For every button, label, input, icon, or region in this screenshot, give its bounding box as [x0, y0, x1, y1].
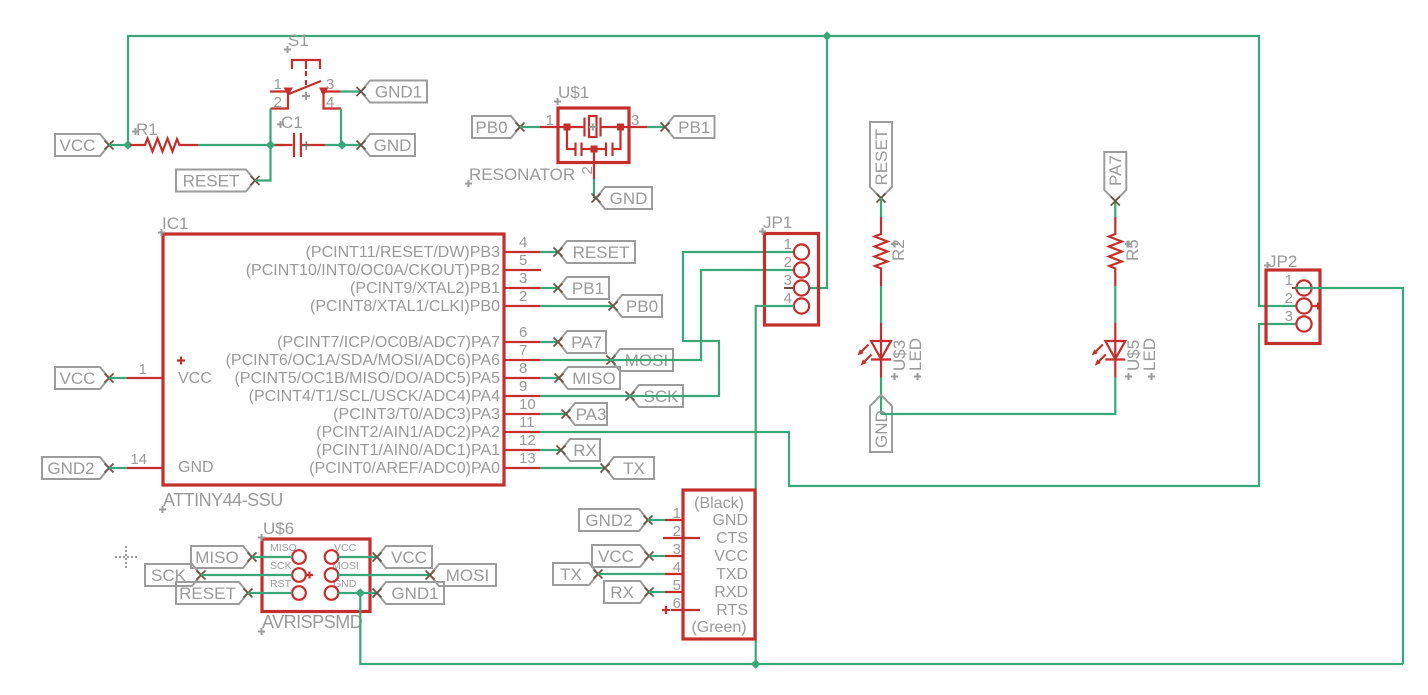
svg-text:1: 1 [1285, 272, 1293, 289]
svg-text:GND1: GND1 [391, 584, 438, 603]
svg-text:CTS: CTS [716, 530, 748, 547]
svg-text:13: 13 [519, 450, 536, 467]
svg-text:RESET: RESET [179, 584, 236, 603]
pin 1 of JP2 [1285, 272, 1312, 296]
pin 6 RTS stub of FTDI (unconnected) [662, 595, 700, 614]
junction dot on top rail at x=827 [822, 31, 832, 41]
node TX flag (IC1) [601, 457, 655, 479]
svg-text:(Green): (Green) [691, 619, 746, 636]
node RESET vertical flag (above R2) [870, 122, 892, 203]
svg-text:(PCINT2/AIN1/ADC2)PA2: (PCINT2/AIN1/ADC2)PA2 [316, 424, 500, 441]
node RESET flag (IC1 PB3) [554, 241, 636, 263]
node MOSI flag (right of U$6) [426, 564, 497, 586]
svg-text:RESET: RESET [573, 243, 630, 262]
svg-text:3: 3 [673, 541, 681, 558]
svg-text:R1: R1 [136, 120, 158, 139]
pin 10 PA3 stub [333, 396, 540, 423]
node GND2 flag (FTDI) [579, 509, 653, 531]
node PB0 flag (IC1) [609, 295, 663, 317]
svg-text:RX: RX [610, 583, 634, 602]
junction dot VCC/R1 [123, 140, 133, 150]
svg-text:PB0: PB0 [475, 118, 507, 137]
svg-text:1: 1 [274, 76, 282, 93]
svg-text:U$1: U$1 [558, 83, 589, 102]
svg-text:PA3: PA3 [576, 405, 607, 424]
wire S1 pin2 down to C1 node [269, 109, 271, 146]
resistor R1 [130, 120, 198, 152]
pin 4 of JP1 [784, 290, 809, 314]
node MISO flag (left of U$6) [191, 546, 257, 568]
wire SCK flag to U$6 [201, 574, 292, 576]
wire PA6/MOSI net: IC1 to JP1 pin 2 [540, 270, 794, 360]
svg-text:R5: R5 [1123, 239, 1142, 261]
junction dot bottom rail at FTDI edge [751, 659, 761, 669]
svg-text:R2: R2 [889, 239, 908, 261]
svg-text:(PCINT8/XTAL1/CLKI)PB0: (PCINT8/XTAL1/CLKI)PB0 [310, 298, 500, 315]
svg-text:4: 4 [519, 234, 527, 251]
svg-text:MISO: MISO [572, 369, 615, 388]
svg-text:9: 9 [519, 378, 527, 395]
svg-text:JP2: JP2 [1268, 252, 1297, 271]
node MOSI flag (on PA6 wire) [607, 349, 674, 371]
node GND1 flag (right of U$6) [373, 582, 445, 604]
pin 4 PB3 stub [306, 234, 540, 261]
svg-text:2: 2 [274, 94, 282, 111]
switch S1 [270, 31, 341, 111]
svg-text:(PCINT7/ICP/OC0B/ADC7)PA7: (PCINT7/ICP/OC0B/ADC7)PA7 [277, 334, 500, 351]
wire VCC branch to JP1 pin 3 [810, 36, 827, 288]
svg-text:GND1: GND1 [375, 83, 422, 102]
sheet origin crosshair [115, 546, 137, 568]
svg-text:5: 5 [519, 252, 527, 269]
svg-text:12: 12 [519, 432, 536, 449]
node PA7 vertical flag (above R5) [1104, 152, 1126, 206]
svg-text:JP1: JP1 [763, 213, 792, 232]
node GND flag (right of C1) [357, 134, 416, 156]
svg-text:1: 1 [139, 361, 147, 378]
pin 3 PB1 stub [350, 270, 540, 297]
node GND1 flag (right of S1) [357, 81, 428, 103]
wire S1 pin4 down to GND node [340, 109, 342, 146]
junction dot RESET/C1 node [266, 140, 276, 150]
svg-text:TXD: TXD [716, 566, 748, 583]
svg-text:VCC: VCC [391, 548, 427, 567]
svg-text:4: 4 [326, 94, 334, 111]
node GND vertical flag (below U$3) [870, 395, 892, 452]
node VCC flag (right of U$6) [373, 546, 433, 568]
wire PB1 to PB1 flag [540, 287, 558, 289]
svg-text:LED: LED [906, 338, 925, 371]
svg-text:2: 2 [519, 288, 527, 305]
wire VCC flag to R1 [109, 144, 130, 146]
junction dot C1/GND/S1 pin4 [337, 140, 347, 150]
svg-text:PA7: PA7 [571, 333, 602, 352]
pin 5 PB2 stub (unconnected) [246, 252, 541, 279]
wire R5 to PA7 flag [1114, 201, 1116, 217]
wire PA4/SCK net: IC1 to JP1 pin 1 [540, 252, 794, 396]
connector JP1 [759, 213, 819, 325]
pin 2 of JP1 [784, 254, 809, 278]
svg-text:GND: GND [178, 459, 214, 476]
pin 9 PA4 stub [249, 378, 540, 405]
pin 1 of JP1 [784, 236, 809, 260]
wire VCC flag to IC1 pin 1 [109, 377, 127, 379]
svg-text:3: 3 [1285, 308, 1293, 325]
svg-text:PA7: PA7 [1106, 155, 1125, 186]
wire PA2 net: IC1 to JP2 pin 3 [540, 324, 1297, 486]
svg-text:GND: GND [712, 512, 748, 529]
wire U$6 GND pin to GND1 flag [339, 592, 378, 594]
svg-text:4: 4 [784, 290, 792, 307]
svg-text:3: 3 [326, 76, 334, 93]
svg-text:VCC: VCC [60, 369, 96, 388]
svg-text:6: 6 [519, 324, 527, 341]
pin 13 PA0 stub [309, 450, 540, 477]
junction dot U$6 GND [356, 588, 366, 598]
node VCC flag (FTDI) [592, 545, 654, 567]
wire PA7 to PA7 flag [540, 341, 558, 343]
resistor R5 [1109, 217, 1142, 286]
wire U$3 to GND flag and cross rail [880, 378, 882, 415]
svg-text:1: 1 [546, 112, 554, 129]
pin 12 PA1 stub [316, 432, 540, 459]
LED U$5 [1092, 323, 1159, 380]
wire PA3 to PA3 flag [540, 413, 566, 415]
wire JP1 pin 4 vertical over FTDI box edge [755, 489, 757, 664]
svg-text:GND: GND [872, 410, 891, 448]
connector J1 FTDI header body [683, 490, 755, 639]
svg-text:RTS: RTS [716, 602, 748, 619]
wire GND2 flag to IC1 pin 14 [109, 467, 127, 469]
svg-text:VCC: VCC [598, 547, 634, 566]
pin 4 TXD stub of FTDI [665, 559, 683, 576]
wire JP2 pin 1 to GND1 rail (right edge) [1296, 288, 1403, 664]
node RX flag (IC1) [557, 439, 601, 461]
wire PA5 to MISO flag [540, 377, 559, 379]
resistor R2 [875, 217, 909, 286]
svg-text:PB1: PB1 [678, 118, 710, 137]
pin MOSI of U$6 [325, 568, 339, 582]
svg-text:GND2: GND2 [47, 459, 94, 478]
pin 5 RXD stub of FTDI [665, 577, 683, 594]
node SCK flag (left of U$6) [145, 564, 206, 586]
pin RST of U$6 [292, 586, 306, 600]
svg-text:RST: RST [270, 578, 292, 590]
node TX flag (FTDI) [553, 563, 603, 585]
svg-text:3: 3 [631, 112, 639, 129]
svg-text:PB0: PB0 [626, 297, 658, 316]
svg-text:2: 2 [579, 166, 596, 174]
svg-text:(PCINT11/RESET/DW)PB3: (PCINT11/RESET/DW)PB3 [306, 244, 501, 261]
svg-text:(PCINT3/T0/ADC3)PA3: (PCINT3/T0/ADC3)PA3 [333, 406, 500, 423]
svg-text:4: 4 [673, 559, 681, 576]
svg-text:GND2: GND2 [585, 511, 632, 530]
svg-text:2: 2 [673, 523, 681, 540]
svg-text:TX: TX [623, 459, 645, 478]
pin SCK of U$6 [292, 568, 313, 582]
pin VCC of U$6 [325, 550, 339, 564]
wire U$5 up to R5 [1114, 286, 1116, 323]
pin GND of U$6 [325, 586, 339, 600]
svg-text:6: 6 [673, 595, 681, 612]
svg-text:11: 11 [519, 414, 535, 431]
resonator U$1 [465, 83, 647, 187]
svg-text:8: 8 [519, 360, 527, 377]
svg-text:(PCINT5/OC1B/MISO/DO/ADC5)PA5: (PCINT5/OC1B/MISO/DO/ADC5)PA5 [234, 370, 500, 387]
wire resonator pin 2 to GND flag [593, 179, 595, 198]
svg-text:RESONATOR: RESONATOR [469, 165, 575, 184]
wire PB3 to RESET flag [540, 251, 558, 253]
svg-text:5: 5 [673, 577, 681, 594]
wire RESET flag up to node [255, 145, 271, 181]
svg-text:1: 1 [673, 505, 681, 522]
svg-text:VCC: VCC [60, 136, 96, 155]
wire PA1 to RX flag [540, 449, 561, 451]
wire U$6 MOSI pin to MOSI flag [339, 574, 431, 576]
svg-text:RXD: RXD [714, 584, 748, 601]
svg-text:(PCINT10/INT0/OC0A/CKOUT)PB2: (PCINT10/INT0/OC0A/CKOUT)PB2 [246, 262, 500, 279]
svg-text:TX: TX [560, 565, 582, 584]
wire GND1 net bottom rail [360, 593, 1403, 664]
node GND2 flag (left of IC1) [42, 457, 114, 479]
svg-text:MISO: MISO [195, 548, 238, 567]
svg-text:(PCINT9/XTAL2)PB1: (PCINT9/XTAL2)PB1 [350, 280, 500, 297]
svg-text:LED: LED [1140, 338, 1159, 371]
pin 3 VCC stub of FTDI [665, 541, 683, 558]
pin 7 PA6 stub [226, 342, 540, 369]
svg-text:7: 7 [519, 342, 527, 359]
svg-text:S1: S1 [288, 31, 309, 50]
svg-text:(PCINT1/AIN0/ADC1)PA1: (PCINT1/AIN0/ADC1)PA1 [316, 442, 500, 459]
connector U$6 AVRISPSMD body [258, 519, 370, 635]
node VCC flag (top left) [55, 134, 114, 156]
pin MISO of U$6 [292, 550, 306, 564]
pin 2 CTS stub of FTDI (unconnected) [663, 523, 700, 540]
svg-text:GND: GND [374, 136, 412, 155]
svg-text:1: 1 [784, 236, 792, 253]
node RX flag (FTDI) [604, 581, 654, 603]
svg-text:RX: RX [573, 441, 597, 460]
wire JP1 pin 4 toward bottom rail [756, 306, 794, 489]
node RESET flag (left of U$6) [176, 582, 253, 604]
wire C1 to GND flag [325, 144, 361, 146]
wire GND2 flag to FTDI pin 1 [648, 519, 665, 521]
op-amp IC1 ATTINY44-SSU body [158, 214, 504, 513]
pin 11 PA2 stub [316, 414, 540, 441]
node MISO flag (IC1) [555, 367, 621, 389]
wire RX flag to FTDI pin 5 [649, 591, 665, 593]
svg-text:IC1: IC1 [162, 214, 188, 233]
svg-text:VCC: VCC [714, 548, 748, 565]
wire PB0 to PB0 flag [540, 305, 613, 307]
wire resonator pin 3 to PB1 flag [647, 126, 665, 128]
node PB1 flag (right of resonator) [661, 116, 715, 138]
svg-text:3: 3 [519, 270, 527, 287]
svg-text:U$6: U$6 [263, 519, 294, 538]
svg-text:RESET: RESET [872, 129, 891, 186]
connector JP2 [1264, 252, 1320, 344]
pin 3 of JP1 [784, 272, 809, 296]
wire R2 to LED U$3 [880, 286, 882, 323]
pin 1 VCC stub of IC1 [127, 361, 163, 378]
svg-text:2: 2 [1285, 290, 1293, 307]
svg-text:AVRISPSMD: AVRISPSMD [262, 612, 363, 632]
wire PB0 flag to resonator pin 1 [520, 126, 540, 128]
svg-text:RESET: RESET [183, 172, 240, 191]
svg-text:(PCINT4/T1/SCL/USCK/ADC4)PA4: (PCINT4/T1/SCL/USCK/ADC4)PA4 [249, 388, 500, 405]
wire VCC flag to FTDI pin 3 [649, 555, 665, 557]
capacitor C1 [275, 113, 325, 157]
svg-text:2: 2 [784, 254, 792, 271]
wire GND rail to LED U$5 [881, 378, 1115, 415]
node PB1 flag (IC1) [554, 277, 610, 299]
pin 14 GND stub of IC1 [127, 451, 163, 468]
wire TX flag to FTDI pin 4 [598, 573, 665, 575]
node PA3 flag (IC1) [562, 403, 608, 425]
wire R1 to C1 node [198, 144, 283, 146]
node RESET flag (top left) [176, 170, 260, 192]
svg-text:ATTINY44-SSU: ATTINY44-SSU [163, 490, 283, 510]
node SCK flag (on PA4 wire) [626, 385, 684, 407]
pin 2 of JP2 [1285, 290, 1322, 314]
pin 1 GND stub of FTDI [665, 505, 683, 522]
svg-text:PB1: PB1 [572, 279, 604, 298]
svg-text:10: 10 [519, 396, 536, 413]
pin 6 PA7 stub [277, 324, 540, 351]
node VCC flag (left of IC1) [55, 367, 114, 389]
wire S1 pin3 to GND1 flag [341, 90, 362, 92]
node PB0 flag (left of resonator) [472, 116, 525, 138]
svg-text:14: 14 [130, 451, 147, 468]
svg-text:(PCINT6/OC1A/SDA/MOSI/ADC6)PA6: (PCINT6/OC1A/SDA/MOSI/ADC6)PA6 [226, 352, 501, 369]
pin 8 PA5 stub [234, 360, 540, 387]
wire RESET flag to U$6 [248, 592, 292, 594]
svg-text:(Black): (Black) [694, 495, 744, 512]
pin 3 of JP2 [1285, 308, 1312, 332]
svg-text:(PCINT0/AREF/ADC0)PA0: (PCINT0/AREF/ADC0)PA0 [309, 460, 500, 477]
svg-text:VCC: VCC [178, 370, 212, 387]
wire MISO flag to U$6 [252, 556, 292, 558]
wire VCC net: top rail from VCC junction to JP2 [128, 36, 1297, 306]
wire RESET flag to R2 [880, 198, 882, 217]
svg-text:3: 3 [784, 272, 792, 289]
svg-text:C1: C1 [281, 113, 303, 132]
svg-text:GND: GND [610, 189, 648, 208]
wire PA0 to TX flag [540, 467, 605, 469]
node GND flag (below resonator) [592, 187, 653, 209]
LED U$3 [858, 323, 926, 380]
svg-text:MOSI: MOSI [446, 566, 489, 585]
pin 2 PB0 stub [310, 288, 540, 315]
wire U$6 VCC pin to VCC flag [339, 556, 378, 558]
node PA7 flag (IC1) [554, 331, 607, 353]
svg-text:SCK: SCK [270, 560, 292, 572]
